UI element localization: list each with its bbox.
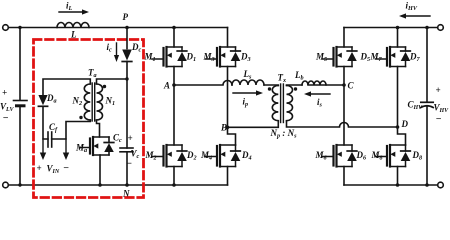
junction battery top <box>18 26 21 29</box>
body diode D5 <box>347 47 370 67</box>
svg-text:−: − <box>3 113 9 124</box>
transformer Tx <box>268 73 297 140</box>
body diode D2 <box>177 145 196 167</box>
wire Lb to node C <box>308 84 344 86</box>
wire Da to Cf <box>43 106 48 139</box>
battery VLV <box>0 28 27 186</box>
body diode D8 <box>401 145 422 167</box>
terminal bottom-right <box>438 182 444 188</box>
inductor Lb <box>302 81 326 85</box>
wire top rail left <box>8 27 227 29</box>
terminal top-left <box>3 25 9 31</box>
transistor M7 <box>370 47 406 67</box>
body diode D6 <box>347 145 367 167</box>
svg-text:L: L <box>70 30 77 40</box>
wire Tx secondary top to Lb <box>287 84 303 87</box>
wire bottom rail right <box>344 184 438 186</box>
arrow iL <box>59 11 82 13</box>
transistor M4 <box>200 145 236 167</box>
body diode D1 <box>177 47 196 67</box>
capacitor CHV <box>408 28 450 186</box>
wire M4 drain jog <box>228 127 236 145</box>
red dashed boundary box <box>34 40 144 198</box>
junction battery bottom <box>18 183 21 186</box>
wire X to N1 top <box>97 79 128 84</box>
arrow iHV <box>406 15 430 17</box>
svg-text:−: − <box>63 163 69 174</box>
transistor M5 <box>315 47 352 67</box>
wire M8 drain jog <box>398 127 406 145</box>
terminal bottom-left <box>3 182 9 188</box>
transistor M2 <box>145 145 183 167</box>
capacitor Cf <box>48 122 58 147</box>
body diode D3 <box>231 47 251 67</box>
wire Da top <box>43 79 90 95</box>
svg-text:+: + <box>37 163 42 173</box>
svg-text:N: N <box>122 189 130 199</box>
transformer Ta <box>72 68 116 122</box>
diode Dc <box>122 42 141 62</box>
wire top rail right <box>344 27 438 29</box>
node A <box>172 83 176 87</box>
inductor Ls <box>232 80 264 85</box>
wire leg M5 M6 <box>343 28 345 186</box>
terminal top-right <box>438 25 444 31</box>
junction node X <box>125 77 128 80</box>
svg-text:A: A <box>163 81 170 91</box>
svg-text:P: P <box>123 12 129 22</box>
arrow right VIN <box>65 139 67 153</box>
arrow is <box>311 93 330 95</box>
svg-text:C: C <box>348 81 355 91</box>
transistor M1 <box>144 47 183 67</box>
node D <box>396 125 400 129</box>
wire Dc to Cc <box>126 62 128 149</box>
svg-text:+: + <box>2 88 7 98</box>
wire N1 bottom to Ma <box>97 120 100 137</box>
arrow ip <box>233 92 256 94</box>
wire node A to Ls with crossover hop <box>174 81 232 86</box>
wire leg M7 M8 <box>397 28 399 186</box>
wire bottom rail left <box>8 184 227 186</box>
svg-text:−: − <box>436 114 442 125</box>
body diode D4 <box>231 145 252 167</box>
wire Cf to N2 bottom <box>52 120 91 139</box>
node B <box>226 126 230 130</box>
transistor M6 <box>315 145 353 167</box>
node C <box>342 83 346 87</box>
svg-text:+: + <box>128 133 133 143</box>
svg-text:D: D <box>401 119 409 129</box>
wire P branch <box>126 28 128 49</box>
transistor Ma <box>75 137 109 155</box>
diode Da <box>38 93 56 106</box>
wire Cc bottom <box>126 152 128 185</box>
capacitor Cc <box>113 133 140 170</box>
wire leg M3 M4 <box>227 28 229 186</box>
arrow ic <box>116 43 118 55</box>
transistor M8 <box>371 145 406 167</box>
wire leg M1 M2 <box>173 28 175 186</box>
body diode of Ma <box>104 137 114 155</box>
wire node B to Tx primary bottom <box>228 121 279 127</box>
svg-text:+: + <box>436 85 441 95</box>
wire Ls to Tx <box>264 84 278 87</box>
arrow left VIN <box>42 139 44 153</box>
svg-text:Np : Ns: Np : Ns <box>270 128 298 140</box>
wire Tx secondary bottom to node D with hop <box>287 121 398 127</box>
svg-text:B: B <box>220 123 227 133</box>
wire Ma source to rail <box>99 155 101 185</box>
transistor M3 <box>203 47 236 67</box>
inductor L <box>57 23 89 28</box>
body diode D7 <box>401 47 421 67</box>
